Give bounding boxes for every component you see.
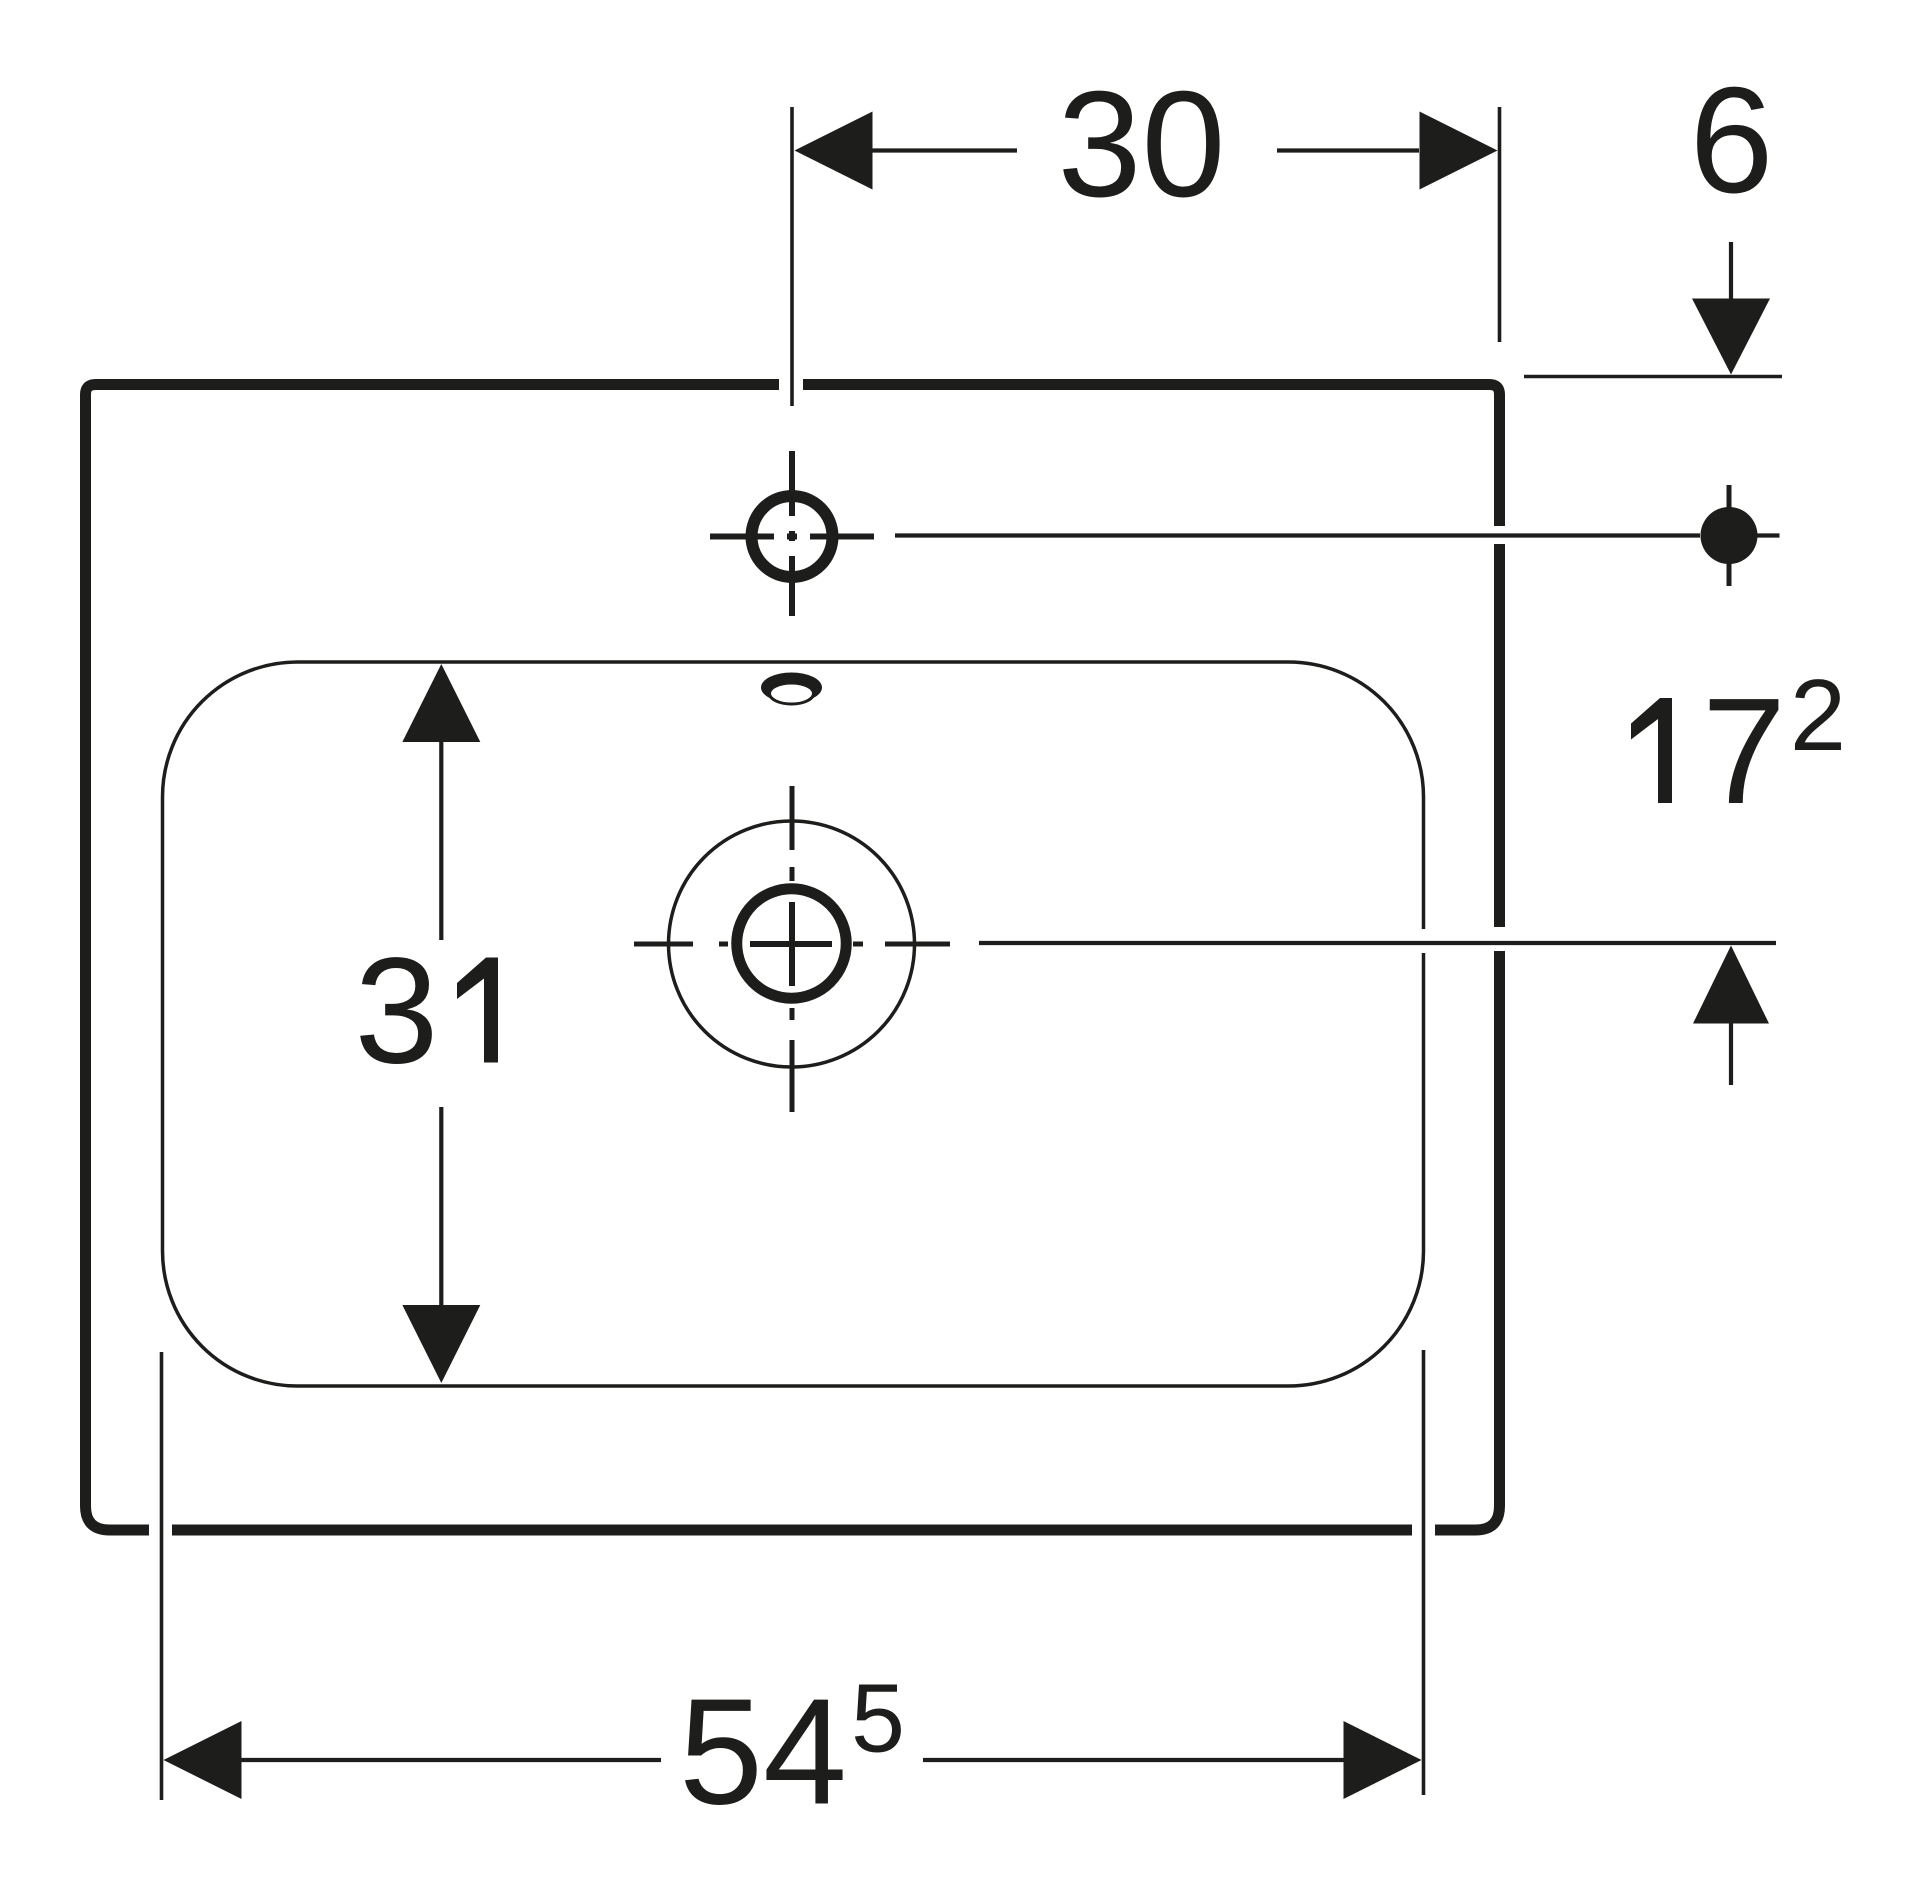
dimension 54^5: dimension line left segment (240, 1758, 661, 1762)
dimension 54^5: left arrowhead (164, 1721, 242, 1799)
svg-text:30: 30 (1058, 59, 1226, 228)
tap hole centerline extension to the right (895, 533, 1700, 537)
dimension 54^5: right arrowhead (1344, 1721, 1422, 1799)
drain crosshair horizontal (750, 941, 832, 947)
dimension 30: right extension line (1498, 107, 1502, 342)
dimension 31: down arrowhead (402, 1305, 480, 1383)
dimension 17^2: value text digit 1 (1631, 698, 1672, 803)
dimension 6: arrow stub line (1729, 242, 1733, 300)
dimension 30: dimension line left segment (872, 148, 1017, 152)
gap in outer edge at right extension line crossing (bottom) (1412, 1521, 1435, 1539)
reference dot terminator on tap centerline (1701, 507, 1758, 564)
horizontal centerline dashes left of drain (634, 942, 950, 947)
gap in bowl edge at drain line crossing (right) (1416, 929, 1430, 953)
drain crosshair vertical (789, 902, 795, 986)
overflow slot inner opening (770, 683, 814, 704)
svg-text:6: 6 (1690, 55, 1774, 224)
tap hole circle (752, 496, 833, 577)
dot centerline dash below (1727, 560, 1732, 586)
dimension 31: dimension line lower segment (439, 1107, 443, 1308)
gap in outer edge at left extension line crossing (bottom) (149, 1521, 172, 1539)
drain centerline extension to the right (979, 941, 1776, 945)
vertical centerline dashes between tap and drain (790, 786, 795, 1112)
dimension 30: dimension line right segment (1277, 148, 1419, 152)
dimension 31: dimension line upper segment (439, 741, 443, 940)
svg-text:2: 2 (1790, 660, 1846, 772)
dimension 30: right arrowhead (1420, 112, 1498, 190)
dimension 54^5: right extension line (1422, 1350, 1426, 1795)
basin bowl (inner rounded basin outline) (163, 662, 1424, 1386)
dimension 30: left extension line (tap centerline up) (790, 107, 794, 406)
dimension 54^5: left extension line (160, 1352, 164, 1800)
dimension 6: down arrowhead (1692, 299, 1770, 375)
dot centerline dash above (1727, 485, 1732, 511)
tap hole crosshair vertical (789, 451, 795, 616)
dimension 17^2: up arrowhead at drain line (1693, 946, 1769, 1024)
dimension 54^5: dimension line right segment (923, 1758, 1345, 1762)
overflow slot (black crescent) (761, 673, 822, 703)
drain hole ring (737, 889, 847, 999)
gap in outer edge at tap centerline crossing (top) (779, 376, 803, 393)
tap hole crosshair horizontal (710, 534, 874, 540)
svg-text:7: 7 (1702, 666, 1786, 835)
dimension 6: reference line (top edge extended) (1524, 375, 1782, 379)
dot centerline dash right (1756, 533, 1780, 537)
gap in outer edge at tap hole line crossing (right) (1491, 526, 1508, 544)
drain outer circle (669, 821, 915, 1067)
gap in outer edge at drain line crossing (right) (1491, 927, 1508, 951)
dimension 31: value text digit 1 (457, 958, 498, 1063)
dimension 30: left arrowhead (795, 112, 873, 190)
svg-text:5: 5 (851, 1664, 905, 1773)
svg-text:54: 54 (679, 1667, 847, 1836)
basin outer edge (ceramic top plan outline) (86, 385, 1500, 1531)
svg-text:3: 3 (355, 926, 439, 1095)
dimension 31: up arrowhead (402, 664, 480, 742)
dimension 17^2: arrow stub line (1729, 1024, 1733, 1086)
